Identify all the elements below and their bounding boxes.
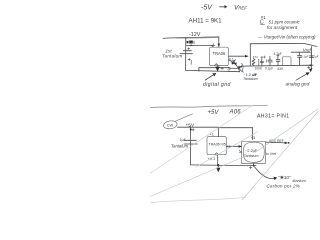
arrowhead into C7 (239, 145, 242, 148)
junction dot branch (212, 45, 214, 47)
svg-text:— Vtarget/Vin (often copying): — Vtarget/Vin (often copying) (257, 35, 316, 40)
pin mark (212, 44, 215, 47)
wire right section top (291, 51, 310, 53)
label +5V A06 (208, 110, 242, 116)
svg-text:TRA06=05: TRA06=05 (209, 142, 226, 146)
regulator U2 box (207, 137, 226, 155)
wire stub (198, 68, 200, 72)
svg-text:A06: A06 (229, 110, 242, 116)
svg-text:1st: 1st (166, 48, 173, 53)
svg-text:+3: +3 (251, 136, 255, 140)
svg-text:titanium: titanium (293, 179, 306, 183)
digital ground arrow junction (215, 67, 219, 72)
CW pot circle (163, 120, 178, 130)
swoosh tail arc (242, 63, 243, 71)
junction dot C7 (253, 165, 255, 167)
capacitor C4 (297, 52, 301, 65)
wire box bottom level (199, 67, 228, 69)
svg-text:analog gnd: analog gnd (286, 81, 310, 87)
mark +4 (249, 166, 251, 168)
ground arrow bottom (216, 164, 220, 172)
wire swoosh to bus (228, 60, 239, 72)
wire U1 output (228, 55, 247, 57)
wire left rail (185, 38, 187, 71)
capacitor C2 (268, 56, 273, 65)
svg-text:“✱10”: “✱10” (279, 175, 291, 180)
polarity mark C1 (188, 58, 191, 64)
faint diagonal line L2b (196, 132, 258, 168)
wire top analog rail (250, 43, 304, 45)
capacitor C5 (309, 52, 313, 57)
bottom bus (191, 164, 256, 167)
U2 gnd pin caret (215, 153, 218, 155)
faint diagonal line L4 (255, 109, 318, 153)
capacitor C1 plates (180, 48, 192, 54)
wire vertical from top rail (249, 44, 251, 66)
arrowhead output (245, 55, 249, 58)
svg-text:100K: 100K (255, 66, 263, 70)
wire bottom bus top circuit (186, 70, 240, 71)
small arrow after 1.2nF (252, 74, 256, 76)
ferrite bead mark (187, 41, 189, 43)
analog ground arrow (309, 66, 313, 73)
faint diagonal line L2 (150, 155, 248, 197)
wire -12V drop into U1 (218, 37, 220, 47)
arrow of title (220, 5, 228, 8)
wire +5V rail (190, 127, 192, 165)
resistor R1 (252, 59, 255, 66)
capacitor C7 box (242, 142, 266, 164)
wire U2 top pin (218, 128, 220, 137)
digital gnd pointer arrow (205, 73, 216, 80)
junction dot analog gnd (310, 64, 312, 66)
arrowhead pointer (306, 72, 310, 75)
svg-text:63V: 63V (278, 67, 285, 71)
label 1st Tantalum (162, 48, 182, 58)
svg-text:for assignment: for assignment (267, 25, 298, 30)
svg-text:ADC REF: ADC REF (269, 139, 284, 143)
svg-text:4.7µF: 4.7µF (274, 52, 282, 56)
wavy divider line (151, 105, 268, 107)
svg-text:AH11 = 9K1: AH11 = 9K1 (189, 18, 223, 25)
component box small (282, 57, 291, 66)
wire analog bus (228, 65, 313, 68)
capacitor C6 plates (184, 140, 197, 144)
ADC ref arrow wire (266, 142, 290, 145)
capacitor C3 (276, 54, 280, 66)
wire U2 gnd pin (217, 155, 219, 165)
wire to right edge (305, 44, 317, 47)
svg-text:0.1µF: 0.1µF (301, 54, 309, 58)
U1 ground pin wire (217, 66, 219, 71)
wire right rail (310, 47, 312, 66)
mark at C7 left (239, 151, 241, 153)
wire U2 out to C7 (226, 145, 241, 147)
capacitor C7 circle (243, 142, 264, 162)
svg-text:Tantalum: Tantalum (171, 143, 189, 148)
pointer curve 1.2nF (238, 65, 244, 72)
polarity mark (308, 66, 310, 68)
wire retrace (176, 37, 218, 40)
svg-text:+0.1: +0.1 (208, 157, 216, 161)
wire -12V top rail (163, 37, 219, 38)
svg-text:CW: CW (167, 123, 174, 127)
svg-text:to Vref: to Vref (266, 152, 277, 156)
svg-text:AH31= PIN1: AH31= PIN1 (257, 114, 289, 120)
label *10 titanium (267, 175, 306, 189)
svg-text:~2.2µF: ~2.2µF (245, 149, 258, 153)
svg-text:TRA06: TRA06 (213, 51, 226, 56)
arrowhead into U1 (218, 44, 221, 47)
svg-text:digital gnd: digital gnd (203, 82, 231, 88)
paper bottom curve (151, 197, 246, 202)
svg-text:0.1µF: 0.1µF (265, 67, 273, 71)
pointer curve to +10 label (255, 167, 278, 180)
svg-text:47n: 47n (253, 55, 258, 59)
wire drop into C7 (252, 128, 254, 140)
svg-text:51 ppm ceramic: 51 ppm ceramic (269, 20, 301, 25)
wire branch to U1 (186, 44, 212, 46)
regulator U1 box (210, 47, 229, 65)
svg-text:4.7µF: 4.7µF (311, 54, 319, 58)
arrowhead on rail (190, 129, 193, 132)
wire U2 top to C7 (219, 127, 253, 129)
polarity mark rail (192, 129, 194, 131)
tick marks network (258, 59, 260, 65)
svg-text:Tantalum: Tantalum (162, 54, 182, 59)
svg-text:VREF: VREF (234, 4, 247, 11)
svg-text:Carbon por 2%: Carbon por 2% (267, 184, 301, 189)
svg-text:Vref: Vref (303, 48, 312, 53)
svg-text:+1: +1 (210, 132, 214, 136)
wire C7 bottom (253, 164, 255, 166)
arrowhead on branch (191, 44, 194, 46)
faint diagonal line L3 (242, 112, 318, 201)
svg-text:Tantalum: Tantalum (243, 77, 258, 81)
faint diagonal line L1 (151, 105, 254, 173)
svg-text:-5V: -5V (201, 4, 213, 11)
pin mark plus (221, 67, 224, 70)
scribble mark (228, 67, 230, 70)
title -5V => Vref (201, 4, 247, 11)
note #1 51ppm ceramic (260, 15, 301, 30)
analog gnd pointer (296, 73, 309, 80)
CW pointer line (175, 114, 192, 122)
capacitor C0 small (260, 56, 263, 66)
svg-text:1µF: 1µF (180, 138, 187, 142)
svg-text:+5V: +5V (208, 110, 220, 116)
U1 gnd pin caret (215, 64, 218, 66)
junction cluster arrows (231, 60, 242, 68)
wire +5V to U2 top (178, 126, 219, 128)
